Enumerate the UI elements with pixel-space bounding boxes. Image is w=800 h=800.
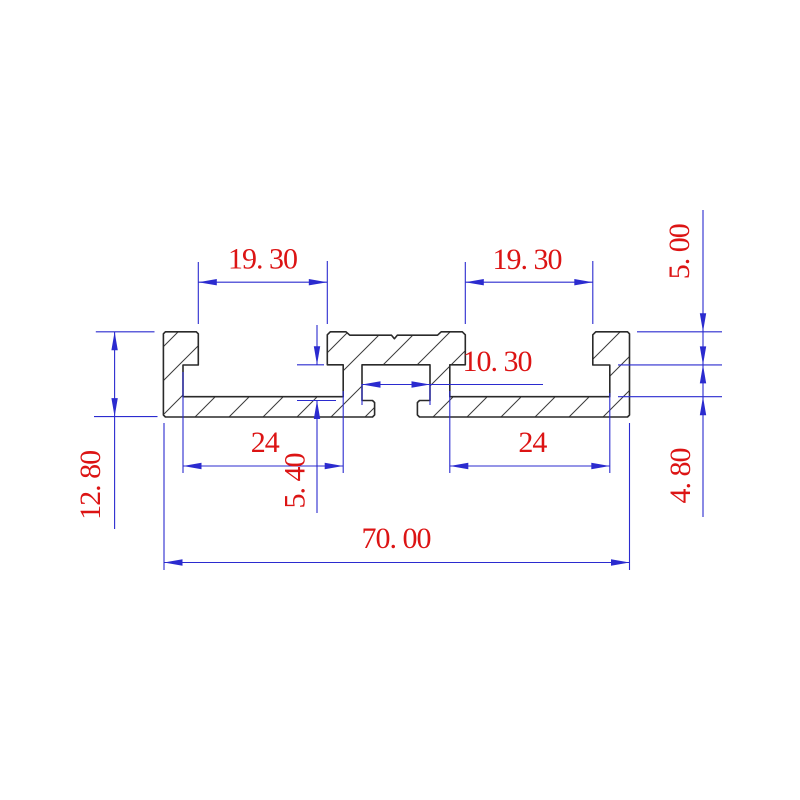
svg-text:70. 00: 70. 00 <box>362 522 431 555</box>
svg-text:12. 80: 12. 80 <box>74 451 107 520</box>
svg-text:5. 00: 5. 00 <box>663 224 696 279</box>
dim 24 right: extension lines <box>450 391 610 473</box>
dim 10.30: dimension line with leader to the right <box>362 384 543 386</box>
arrow 4.80 bottom (up) <box>700 397 706 416</box>
arrow 5.00 top (down) <box>700 313 706 332</box>
arrow 24 left-right <box>325 463 344 469</box>
svg-text:5. 40: 5. 40 <box>279 454 312 509</box>
dims 5.00 and 4.80: extension lines <box>618 332 722 397</box>
arrow 10.30 right <box>412 381 431 387</box>
arrow 12.80 top <box>111 332 117 351</box>
dim 19.30 left: dimension line <box>198 281 327 283</box>
dim 19.30 right: dimension line <box>465 281 593 283</box>
arrow 10.30 left <box>362 381 381 387</box>
svg-text:19. 30: 19. 30 <box>493 243 562 276</box>
arrow 19.30 right-right <box>574 279 593 285</box>
arrow 70.00 left <box>164 559 183 565</box>
dim 24 left: dimension line <box>183 465 343 467</box>
arrow 5.40 top (down) <box>314 346 320 365</box>
arrow 4.80 top (down) <box>700 346 706 365</box>
svg-text:10. 30: 10. 30 <box>463 345 532 378</box>
arrow 19.30 left-right <box>309 279 328 285</box>
arrow 19.30 right-left <box>465 279 484 285</box>
dim 24 left: extension lines <box>183 372 343 473</box>
arrow 24 right-right <box>591 463 610 469</box>
arrow 19.30 left-left <box>198 279 217 285</box>
dim 12.80: extension lines <box>94 332 158 417</box>
arrow 70.00 right <box>611 559 630 565</box>
svg-text:24: 24 <box>251 426 280 459</box>
dims 5.00 and 4.80: dimension line <box>702 210 704 517</box>
dim 10.30: extension lines <box>362 384 430 405</box>
dim 24 right: dimension line <box>450 465 610 467</box>
svg-text:24: 24 <box>518 426 547 459</box>
aluminium T-track profile cross-section outline with hatching <box>163 332 629 417</box>
dim 70.00: dimension line <box>164 562 630 564</box>
dim 19.30 left: extension lines <box>198 261 327 324</box>
dim 70.00: extension lines <box>164 423 630 570</box>
svg-text:19. 30: 19. 30 <box>228 243 297 276</box>
dim 12.80: dimension line <box>114 332 116 529</box>
arrow 12.80 bottom <box>111 398 117 417</box>
dim 5.40: extension lines <box>297 365 336 401</box>
arrow 24 right-left <box>450 463 469 469</box>
dim 5.40: dimension line segments <box>316 325 318 513</box>
dim 19.30 right: extension lines <box>465 261 593 324</box>
arrow 24 left-left <box>183 463 202 469</box>
arrow 5.00 bottom (up) <box>700 365 706 384</box>
svg-text:4. 80: 4. 80 <box>664 449 697 504</box>
arrow 5.40 bottom (up) <box>314 401 320 420</box>
